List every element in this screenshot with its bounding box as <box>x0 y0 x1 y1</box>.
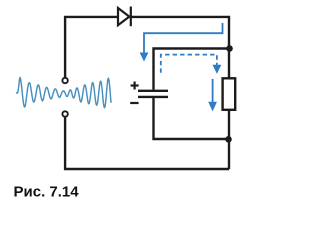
terminal (upper input) <box>62 78 67 83</box>
svg-text:Рис. 7.14: Рис. 7.14 <box>14 184 80 201</box>
terminal (lower input) <box>62 111 67 116</box>
wire right lower (resistor to bottom corner) <box>228 110 230 169</box>
current arrow (solid: current through load resistor) <box>212 79 214 102</box>
capacitor C <box>138 91 168 97</box>
current arrow (solid: diode current into capacitor) <box>144 23 223 53</box>
wire capacitor top branch (from junction to cap) <box>154 49 230 90</box>
wire capacitor bottom branch (cap down then right to junction) <box>154 97 229 139</box>
label - (capacitor polarity) <box>130 102 138 104</box>
wire top (anode side, left vertical + horizontal to diode) <box>65 17 118 77</box>
label + (capacitor polarity) <box>131 82 139 90</box>
diode <box>118 7 131 27</box>
junction (bottom right node) <box>225 136 232 143</box>
wire top (cathode side to right corner and down to resistor) <box>131 17 229 78</box>
wire bottom (bottom rail back to source) <box>65 117 229 169</box>
AC modulated input signal waveform <box>17 77 112 107</box>
current arrow (dashed: discharge path of capacitor) <box>161 55 217 73</box>
resistor R (load) <box>223 78 236 110</box>
junction (top right node) <box>226 45 233 52</box>
